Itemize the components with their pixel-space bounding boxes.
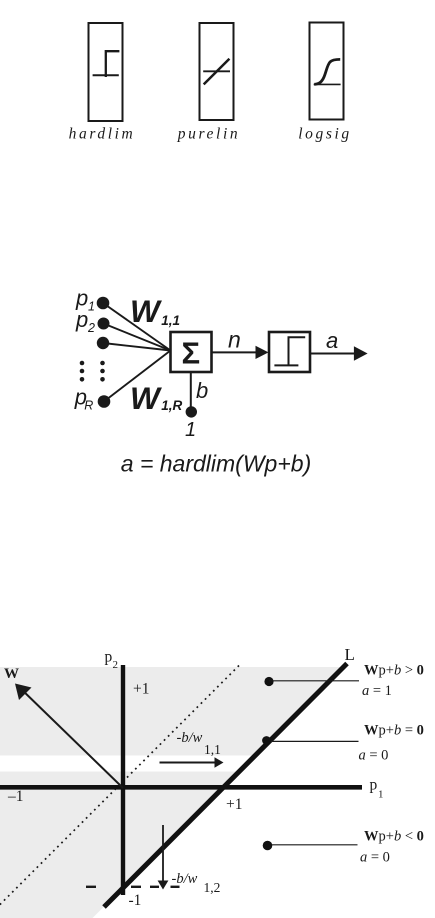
svg-text:a = 0: a = 0	[360, 850, 390, 866]
svg-text:a = 0: a = 0	[359, 748, 389, 764]
svg-text:Wp+b < 0: Wp+b < 0	[364, 829, 424, 845]
svg-text:2: 2	[113, 659, 119, 671]
svg-text:a: a	[326, 328, 338, 353]
svg-text:+1: +1	[226, 796, 243, 813]
svg-text:1,1: 1,1	[204, 742, 221, 757]
svg-text:n: n	[228, 326, 241, 352]
svg-text:Wp+b = 0: Wp+b = 0	[364, 723, 424, 739]
svg-text:purelin: purelin	[177, 126, 240, 143]
svg-text:logsig: logsig	[298, 126, 352, 143]
svg-text:–1: –1	[7, 788, 24, 805]
svg-text:1,2: 1,2	[204, 880, 221, 895]
svg-text:1,1: 1,1	[161, 313, 180, 328]
svg-text:hardlim: hardlim	[69, 126, 136, 143]
svg-text:p: p	[370, 777, 378, 794]
svg-text:-b/w: -b/w	[177, 730, 203, 746]
svg-text:-b/w: -b/w	[172, 871, 198, 887]
svg-text:1: 1	[88, 300, 95, 314]
svg-text:Σ: Σ	[181, 336, 200, 371]
svg-text:R: R	[84, 399, 93, 413]
svg-text:b: b	[196, 378, 208, 403]
svg-text:a = hardlim(Wp+b): a = hardlim(Wp+b)	[121, 451, 311, 477]
svg-text:W: W	[4, 666, 19, 682]
svg-text:1: 1	[185, 419, 196, 441]
svg-text:1: 1	[378, 789, 384, 801]
svg-text:+1: +1	[133, 681, 150, 698]
svg-text:W: W	[130, 293, 162, 329]
svg-text:Wp+b > 0: Wp+b > 0	[364, 663, 424, 679]
svg-text:2: 2	[87, 321, 95, 335]
svg-text:a = 1: a = 1	[362, 683, 392, 699]
svg-text:W: W	[130, 380, 162, 416]
svg-text:p: p	[75, 307, 88, 332]
svg-text:p: p	[105, 649, 113, 666]
svg-text:L: L	[345, 645, 355, 664]
svg-text:-1: -1	[129, 892, 142, 909]
svg-text:1,R: 1,R	[161, 398, 182, 413]
